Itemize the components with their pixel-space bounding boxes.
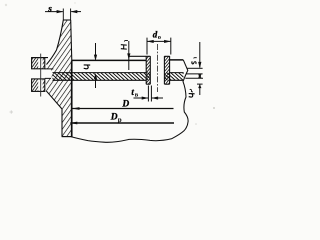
shell band (sectioned wall, dense hatch): [53, 73, 184, 81]
dimension D: [72, 99, 174, 110]
boss outlines: [146, 55, 169, 57]
svg-text:D: D: [110, 113, 118, 123]
rim ring bottom (hatched with bolt channel): [32, 79, 45, 92]
dimension d0 (boss diameter): [147, 29, 171, 54]
rim ring top (hatched with bolt channel): [32, 58, 45, 69]
shell top line: [72, 59, 184, 62]
boss hole centerline: [156, 44, 158, 92]
svg-text:s: s: [47, 4, 52, 14]
dimension s (web top thickness): [45, 4, 81, 20]
web bottom edge: [62, 136, 73, 138]
svg-text:в: в: [135, 92, 139, 99]
svg-text:o: o: [158, 34, 161, 41]
boss right wall hatched: [164, 56, 169, 84]
h3 label: [189, 94, 195, 97]
bolt centerline through rim rings: [40, 54, 42, 97]
dimension h (arrow column at x=95.5): [84, 43, 97, 88]
svg-text:p: p: [118, 116, 122, 124]
svg-text:D: D: [121, 99, 129, 109]
dimension t_v (below boss): [131, 86, 163, 102]
flange web (tapered disc, hatched): [45, 20, 72, 137]
dimension s1 and h3 column (x=199.8): [192, 42, 202, 95]
boss hole white: [150, 56, 164, 85]
break line (wavy boundary of cutaway): [71, 60, 188, 142]
rim ring top: ledge line to web: [32, 57, 48, 59]
web top edge: [63, 19, 71, 21]
bolt hole boss: [129, 56, 170, 85]
scan noise specks: [10, 110, 14, 114]
bottom web left edge: [46, 91, 62, 137]
web right edge (thick): [71, 61, 73, 137]
gap notch lines between rim rings: [45, 69, 54, 79]
right end exterior lines (beyond break): [185, 68, 203, 84]
band top line: [53, 72, 184, 74]
dimension H1 (vertical line at x=128.8): [121, 41, 131, 70]
boss top edge extension to left (H1 reference): [129, 55, 147, 57]
band bottom line: [53, 79, 184, 81]
dimension D_p: [70, 113, 174, 125]
web outline: [47, 20, 72, 65]
boss left wall hatched: [146, 56, 150, 84]
